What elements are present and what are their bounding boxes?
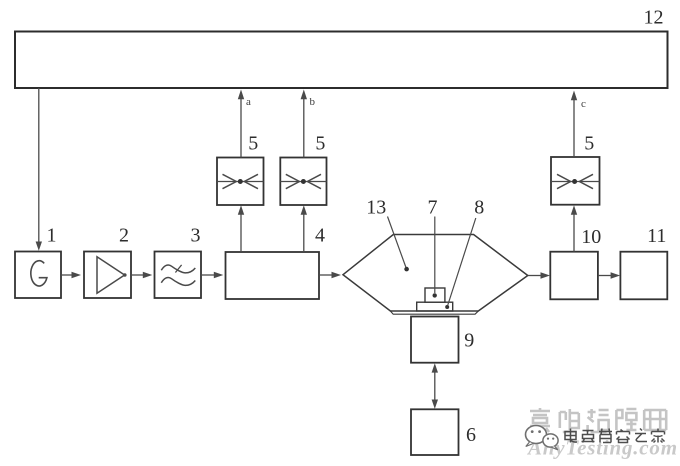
box 6 xyxy=(411,409,459,455)
leader 13 xyxy=(388,217,406,268)
svg-text:5: 5 xyxy=(248,133,258,155)
svg-text:13: 13 xyxy=(366,197,386,219)
wire box4 to box5a xyxy=(238,205,244,252)
svg-text:4: 4 xyxy=(315,225,325,247)
leader 8 xyxy=(448,218,476,305)
svg-text:11: 11 xyxy=(647,225,666,247)
box 9 under cell xyxy=(411,317,459,363)
box 5a power meter head xyxy=(217,158,264,206)
svg-text:8: 8 xyxy=(474,197,484,219)
G symbol xyxy=(31,261,47,286)
svg-text:9: 9 xyxy=(464,330,474,352)
svg-text:6: 6 xyxy=(466,424,476,446)
DUT base box 8 xyxy=(417,302,453,311)
wire arrow 10 to 11 xyxy=(598,272,620,279)
wire box4 to box5b xyxy=(301,205,307,252)
box 4 coupler unit xyxy=(226,252,320,299)
amplifier triangle xyxy=(97,257,125,293)
box 2 amplifier xyxy=(84,252,131,299)
svg-text:5: 5 xyxy=(315,133,325,155)
box 1 signal generator xyxy=(15,252,61,299)
filter wave lower xyxy=(161,277,195,285)
wire arrow box4 to cell xyxy=(319,272,341,279)
node 13 dot xyxy=(404,267,409,272)
wire box5b to box12, node b xyxy=(301,90,307,158)
box 11 xyxy=(620,252,667,300)
wire box10 to box5c xyxy=(571,205,577,252)
DUT box 7 xyxy=(425,288,445,302)
wire arrow 2 to 3 xyxy=(131,272,152,279)
wire box5a to box12, node a xyxy=(238,90,244,158)
TEM cell 13 hexagon xyxy=(343,235,528,312)
wire arrow 1 to 2 xyxy=(61,272,81,279)
wire arrow 3 to 4 xyxy=(201,272,223,279)
wire box5c to box12, node c xyxy=(571,91,577,158)
filter slash xyxy=(175,265,181,273)
svg-text:3: 3 xyxy=(191,225,201,247)
box 12 (measurement/control unit) xyxy=(15,32,668,89)
svg-text:12: 12 xyxy=(644,7,664,29)
watermark dark CJK pseudo-glyphs xyxy=(565,429,665,443)
svg-text:5: 5 xyxy=(584,133,594,155)
cell floor slab xyxy=(390,311,478,314)
watermark wechat icon xyxy=(526,426,559,450)
svg-text:a: a xyxy=(246,96,251,108)
svg-text:10: 10 xyxy=(581,226,601,248)
svg-text:7: 7 xyxy=(428,197,438,219)
double arrow box9 to box6 xyxy=(432,363,438,409)
svg-text:c: c xyxy=(581,98,586,110)
wire arrow cell to box10 xyxy=(528,272,550,279)
wire box12 to box1 xyxy=(36,88,42,251)
leader 7 xyxy=(434,217,436,294)
watermark big gray CJK pseudo-glyphs xyxy=(530,408,666,432)
box 5b power meter head xyxy=(280,158,326,206)
node 8 dot xyxy=(445,305,449,309)
box 5c power meter head xyxy=(551,157,600,205)
box 10 xyxy=(550,252,598,300)
filter wave upper xyxy=(161,265,195,273)
box 3 filter xyxy=(155,252,202,299)
node 7 dot xyxy=(433,293,437,297)
svg-text:1: 1 xyxy=(47,225,57,247)
svg-text:b: b xyxy=(310,96,316,108)
svg-text:2: 2 xyxy=(119,225,129,247)
